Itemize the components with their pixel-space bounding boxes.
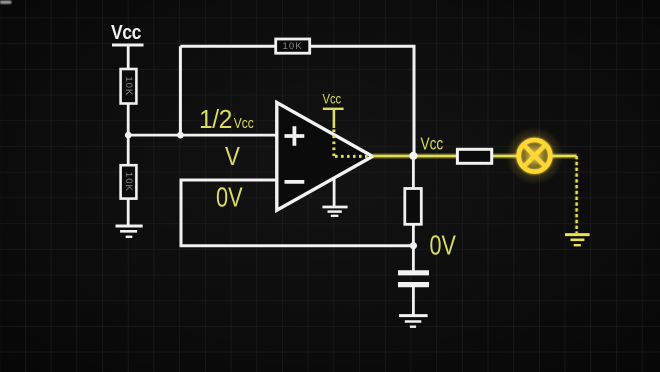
node B junction dot	[177, 132, 184, 139]
wire op-amp output to node C (yellow)	[373, 153, 458, 159]
top feedback wire left segment	[180, 45, 276, 48]
ground G3 (yellow)	[565, 235, 590, 246]
node A junction dot	[125, 132, 132, 139]
svg-text:0V: 0V	[430, 230, 457, 261]
svg-text:Vcc: Vcc	[111, 21, 141, 43]
op-amp U1 triangle	[277, 103, 373, 211]
op-amp - input symbol	[285, 180, 305, 184]
wire node B up to top rail	[179, 46, 182, 135]
svg-text:10K: 10K	[282, 41, 303, 52]
ground G1	[116, 226, 143, 237]
dashed wire down right side	[574, 156, 579, 233]
wire node C to lamp (yellow)	[490, 153, 520, 159]
svg-text:Vcc: Vcc	[234, 115, 254, 132]
label Vcc at output node	[421, 135, 444, 154]
op-amp Vcc power bar	[323, 108, 344, 110]
node C output junction dot	[409, 152, 417, 160]
dotted output-level line vertical	[332, 130, 335, 157]
wire node C down to R5	[412, 156, 415, 189]
wire R2 to ground G1	[127, 199, 130, 226]
wire R1 to node A	[127, 104, 130, 167]
svg-text:Vcc: Vcc	[421, 135, 444, 154]
svg-text:Vcc: Vcc	[323, 91, 342, 106]
dotted output-level line horizontal	[335, 155, 371, 158]
wire node A to op-amp + input	[128, 134, 277, 137]
resistor R2 10K	[121, 165, 137, 198]
wire Vcc bar to R1	[127, 45, 130, 70]
label 1/2 Vcc	[199, 105, 254, 134]
op-amp power wire solid segment	[333, 109, 336, 128]
lamp L1	[519, 140, 551, 172]
resistor R1 10K	[121, 69, 137, 104]
wire lamp to right corner (yellow)	[552, 153, 577, 159]
op-amp + input symbol	[285, 126, 305, 146]
resistor R3 10K (feedback)	[276, 39, 310, 53]
ground G2 (op-amp)	[322, 207, 347, 216]
node D junction dot	[410, 242, 417, 249]
power rail bar Vcc	[112, 44, 144, 47]
label V	[225, 142, 241, 171]
capacitor C1	[398, 273, 429, 285]
label 0V at node D	[430, 230, 457, 261]
corner artifact top-left	[0, 1, 12, 5]
svg-text:0V: 0V	[216, 183, 243, 213]
resistor R4 (series with lamp)	[457, 149, 491, 163]
feedback wire bottom (node D to - input)	[180, 180, 414, 247]
lamp L1 halo glow	[506, 127, 564, 185]
wire C1 to ground G4	[412, 287, 415, 315]
svg-text:1/2: 1/2	[199, 105, 232, 134]
op-amp Vcc power pin label	[323, 91, 342, 106]
svg-text:10K: 10K	[123, 76, 134, 96]
resistor R5	[405, 189, 422, 225]
svg-text:10K: 10K	[123, 172, 134, 192]
svg-text:V: V	[225, 142, 241, 171]
wire R5 to node D	[412, 224, 415, 271]
ground G4	[399, 316, 428, 327]
top feedback wire right segment	[310, 45, 414, 156]
op-amp ground pin wire	[333, 179, 336, 207]
power label Vcc (top left)	[111, 21, 141, 43]
label 0V (inverting input)	[216, 183, 243, 213]
